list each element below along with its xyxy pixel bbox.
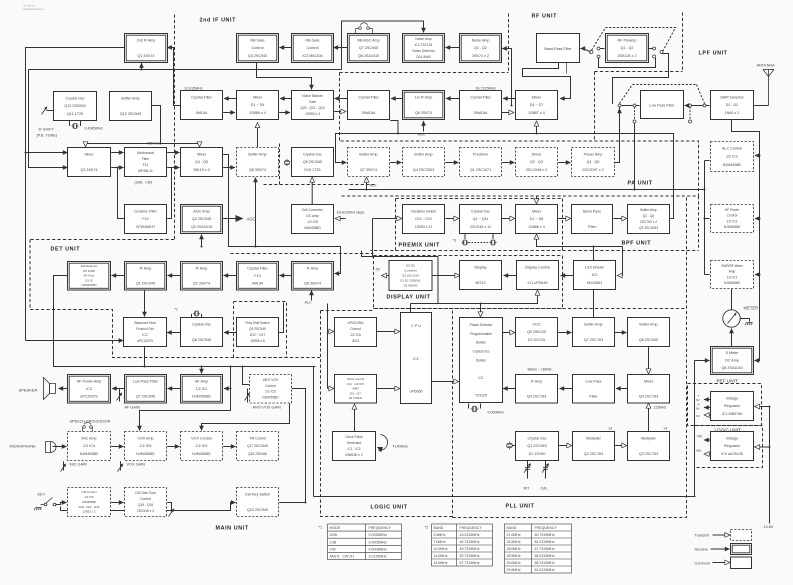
freq shift dashed enclosure <box>234 302 287 358</box>
svg-text:1/2 IC6: 1/2 IC6 <box>140 444 152 448</box>
display data column <box>362 251 439 304</box>
svg-text:IC3: IC3 <box>86 387 92 391</box>
svg-text:NJM4558D: NJM4558D <box>192 395 211 399</box>
svg-text:NB Gate: NB Gate <box>250 38 264 42</box>
svg-text:Phase Detector: Phase Detector <box>470 323 494 327</box>
svg-text:AGC Amp: AGC Amp <box>193 209 209 213</box>
svg-text:46.7315MHz: 46.7315MHz <box>460 540 480 544</box>
NB AGC amp <box>348 34 390 63</box>
svg-text:10Hz/100Hz steps: 10Hz/100Hz steps <box>337 211 365 215</box>
anti vox to vox control <box>202 403 290 430</box>
premix crystal stub1 <box>464 234 466 240</box>
svg-text:Q1 3SK74: Q1 3SK74 <box>137 54 154 58</box>
cpu top stub <box>410 304 412 313</box>
svg-text:Noise Amp: Noise Amp <box>472 38 490 42</box>
svg-text:Freq Shift Switch: Freq Shift Switch <box>245 321 269 325</box>
svg-text:2SC1945 x 2: 2SC1945 x 2 <box>526 168 547 172</box>
MAIN/LOGIC divider <box>321 311 453 517</box>
display control to display <box>504 275 517 277</box>
svg-text:Crystal Filter: Crystal Filter <box>191 95 212 99</box>
divider to display control <box>561 275 574 277</box>
AM detector <box>68 262 111 291</box>
svg-text:Q12 2SC945: Q12 2SC945 <box>120 112 141 116</box>
ALC control <box>711 142 754 172</box>
RF feed second vert <box>566 63 568 74</box>
reg feed 2 <box>755 446 770 448</box>
clock control <box>335 375 377 404</box>
svg-text:Oscillator Switch: Oscillator Switch <box>411 209 436 213</box>
svg-text:LPF UNIT: LPF UNIT <box>699 51 728 57</box>
IF SHIFT pot <box>42 107 47 114</box>
svg-text:Clock Control: Clock Control <box>347 377 365 381</box>
wire NB AGC loop <box>342 21 424 70</box>
noise blanker gate <box>292 91 334 120</box>
TX return blanker to filter39 <box>334 111 345 113</box>
svg-text:DN8150 x 2: DN8150 x 2 <box>345 453 363 457</box>
IF chain arrow blanker to mixer <box>280 98 292 100</box>
svg-text:CW Control: CW Control <box>82 490 97 494</box>
svg-text:Q4 2SC763: Q4 2SC763 <box>527 395 546 399</box>
svg-text:ANTENNA: ANTENNA <box>757 64 776 68</box>
TX filter39 from PA line <box>390 121 398 134</box>
svg-text:Q1 2SC1214: Q1 2SC1214 <box>402 274 419 278</box>
ref arrow T <box>704 399 712 401</box>
pll buffer amp Q8 <box>628 318 670 347</box>
premix osc sw to crystal osc <box>445 218 458 220</box>
svg-text:Q3 2SC3053: Q3 2SC3053 <box>639 226 658 230</box>
tuning knob symbol <box>379 435 388 451</box>
svg-text:DC-DC: DC-DC <box>406 263 415 267</box>
svg-text:ALC: ALC <box>305 301 312 305</box>
IF amp Q1 3SK74 <box>181 262 223 291</box>
balanced mod bottom drop <box>144 347 146 367</box>
phase det crystal stub right <box>480 404 482 409</box>
speaker symbol <box>44 378 56 400</box>
svg-text:MF455-11: MF455-11 <box>138 169 153 173</box>
pll IF amp <box>516 375 558 404</box>
svg-text:18.0MHz: 18.0MHz <box>434 561 448 565</box>
CPU <box>401 313 432 404</box>
2nd IF unit lower-left descender <box>279 144 281 185</box>
mixer Q3 to mech filter lower <box>111 167 123 169</box>
ALC to buffer Q7 <box>366 178 368 190</box>
SWR detector <box>711 91 754 120</box>
s meter feed drop <box>694 361 696 497</box>
speech processor jumper <box>83 422 93 431</box>
band table right <box>505 524 572 573</box>
svg-text:Display Control: Display Control <box>525 265 550 269</box>
svg-text:24.5MHz: 24.5MHz <box>507 540 521 544</box>
clock pulse gen to cpu <box>354 405 356 432</box>
svg-text:IC4 . 1/2 IC5: IC4 . 1/2 IC5 <box>347 382 364 386</box>
svg-text:Band-Pass Filter: Band-Pass Filter <box>544 47 572 51</box>
PREMIX unit bottom <box>396 250 563 252</box>
logic reg arrow top <box>704 439 712 441</box>
updown input <box>328 331 334 333</box>
svg-text:2SK125 x 2: 2SK125 x 2 <box>617 54 636 58</box>
mechanical filter <box>125 148 167 177</box>
svg-text:Predriver: Predriver <box>473 152 489 156</box>
svg-text:6V: 6V <box>696 398 700 402</box>
svg-text:DET UNIT: DET UNIT <box>51 247 81 253</box>
det chain F13 to IF amp <box>224 275 237 277</box>
svg-text:Q11 1T25: Q11 1T25 <box>67 112 83 116</box>
preamp out link <box>649 48 653 50</box>
svg-text:CW Key Switch: CW Key Switch <box>245 492 270 496</box>
svg-text:PLL UNIT: PLL UNIT <box>506 504 535 510</box>
svg-text:IF Amp: IF Amp <box>140 266 152 270</box>
svg-text:UP/DOWN: UP/DOWN <box>348 321 365 325</box>
svg-text:VOX GAIN: VOX GAIN <box>127 463 146 467</box>
low pass filter LPF unit <box>641 91 684 119</box>
svg-text:68.7315MHz: 68.7315MHz <box>535 561 555 565</box>
svg-text:Buffer Amp: Buffer Amp <box>359 152 377 156</box>
tx dashed diag left <box>620 85 633 104</box>
svg-text:D/A Converter: D/A Converter <box>302 208 324 212</box>
svg-text:PREMIX UNIT: PREMIX UNIT <box>399 243 440 249</box>
wire bus to balanced mod <box>26 340 124 342</box>
svg-text:IF Amp: IF Amp <box>307 266 319 270</box>
svg-text:Product Det: Product Det <box>136 327 153 331</box>
svg-text:Filter: Filter <box>588 225 597 229</box>
det chain IF to IF <box>168 275 181 277</box>
svg-text:DISPLAY UNIT: DISPLAY UNIT <box>387 295 431 301</box>
display control <box>517 261 559 290</box>
alc stub2 <box>705 218 710 220</box>
svg-text:BPF UNIT: BPF UNIT <box>622 241 652 247</box>
svg-text:9.4985MHz: 9.4985MHz <box>85 127 104 131</box>
svg-text:Q4 . Q5: Q4 . Q5 <box>587 160 600 164</box>
svg-text:MAIN UNIT: MAIN UNIT <box>216 526 249 532</box>
wire AGC line y69 <box>29 69 342 71</box>
svg-text:D5 1N60: D5 1N60 <box>83 269 95 273</box>
osc switch input arrow <box>373 218 402 220</box>
reg feed 1 <box>755 406 770 408</box>
svg-text:D14 IN60: D14 IN60 <box>416 55 430 59</box>
svg-text:Filter: Filter <box>589 395 598 399</box>
svg-text:69.2315MHz: 69.2315MHz <box>535 568 555 572</box>
svg-text:F13: F13 <box>254 274 260 278</box>
svg-text:IC1 MB3756: IC1 MB3756 <box>722 412 743 416</box>
svg-text:Mixer: Mixer <box>197 152 207 156</box>
svg-text:Low Pass Filter: Low Pass Filter <box>133 379 159 383</box>
buffer to buffer pll <box>614 332 626 334</box>
AM det audio out <box>54 276 316 367</box>
premix crystal osc to mixer <box>502 218 515 220</box>
svg-text:uPD650: uPD650 <box>410 390 423 394</box>
svg-text:NB AGC Amp: NB AGC Amp <box>357 38 379 42</box>
DC-DC converter <box>389 261 432 291</box>
svg-text:IC2 M51204: IC2 M51204 <box>302 54 322 58</box>
svg-text:Divider: Divider <box>476 341 487 345</box>
svg-text:1/2 IC5: 1/2 IC5 <box>350 333 361 337</box>
swr to lpf wire <box>706 105 710 107</box>
phase detector <box>460 318 503 403</box>
anti vox control <box>250 375 292 404</box>
svg-text:Multiplier: Multiplier <box>586 436 602 440</box>
ALC bus <box>349 189 705 191</box>
svg-text:NJM4558D: NJM4558D <box>262 396 279 400</box>
LOGIC top boundary <box>321 310 374 312</box>
RIT line <box>527 461 529 479</box>
svg-text:NJM4558D: NJM4558D <box>192 452 211 456</box>
legend transmit box <box>731 530 752 541</box>
s meter to meter <box>731 329 733 347</box>
svg-text:D19 1T25: D19 1T25 <box>304 168 320 172</box>
svg-text:96kHz ~ 16MHz: 96kHz ~ 16MHz <box>528 368 553 372</box>
svg-text:FREQUENCY: FREQUENCY <box>460 526 483 530</box>
svg-text:1S887 x 4: 1S887 x 4 <box>528 111 545 115</box>
clock control to cpu <box>377 388 400 390</box>
svg-text:Mechanical: Mechanical <box>137 151 154 155</box>
svg-text:Noise Blanker: Noise Blanker <box>302 94 323 98</box>
svg-text:CW Side Tone: CW Side Tone <box>135 491 156 495</box>
anti vox out column <box>292 389 306 503</box>
svg-text:7.0MHz: 7.0MHz <box>434 540 446 544</box>
svg-text:21.0MHz: 21.0MHz <box>507 533 521 537</box>
svg-text:x3: x3 <box>609 427 613 431</box>
noise amp chain arrow <box>446 47 460 49</box>
svg-text:1S953 x 3: 1S953 x 3 <box>82 510 95 514</box>
svg-text:SWR Detector: SWR Detector <box>720 95 744 99</box>
svg-text:LSB: LSB <box>330 540 337 544</box>
crystal D1 1SV50 <box>507 442 512 450</box>
svg-text:1st IF Amp: 1st IF Amp <box>415 95 433 99</box>
svg-text:Q2 2SC763: Q2 2SC763 <box>584 452 603 456</box>
crystal osc Q9 <box>292 148 334 177</box>
svg-text:NJM4558D: NJM4558D <box>304 226 321 230</box>
svg-text:(SSB . CW): (SSB . CW) <box>135 181 153 185</box>
logic voltage regulator <box>711 432 754 461</box>
cpu to phase detector <box>432 381 459 383</box>
svg-text:Buffer Amp: Buffer Amp <box>639 322 657 326</box>
DET/MAIN divider <box>231 253 374 255</box>
svg-text:MICROPHONE: MICROPHONE <box>10 445 37 449</box>
antenna symbol <box>763 70 774 106</box>
AGC arrow symbol <box>236 215 244 222</box>
svg-text:D2 SVC20: D2 SVC20 <box>528 338 545 342</box>
svg-text:F11: F11 <box>143 163 149 167</box>
svg-text:NB Gate: NB Gate <box>305 38 319 42</box>
clock pulse generator <box>333 432 376 461</box>
if shift link <box>47 110 54 112</box>
ceramic filter <box>125 205 167 234</box>
svg-text:Q20 . Q21 . Q24: Q20 . Q21 . Q24 <box>300 106 324 110</box>
mic amp to vox amp <box>111 446 123 448</box>
crystal 9.000MHz <box>471 406 479 411</box>
IF chain arrow filter39 to 1st IF <box>446 98 460 100</box>
multiplier Q3 <box>628 432 670 461</box>
svg-text:3SK74 x 2: 3SK74 x 2 <box>472 54 489 58</box>
pll top long wire <box>314 496 696 498</box>
det low pass filter <box>125 375 167 404</box>
lpf relay left dash <box>634 107 636 120</box>
svg-text:Q18 2SD468: Q18 2SD468 <box>248 452 267 456</box>
svg-text:2SC945 x 11: 2SC945 x 11 <box>470 225 491 229</box>
svg-text:NJM4558D: NJM4558D <box>723 163 742 167</box>
svg-text:D1 ~ D8: D1 ~ D8 <box>530 217 544 221</box>
svg-text:AM Detector: AM Detector <box>81 264 98 268</box>
svg-text:Crystal Osc: Crystal Osc <box>65 96 84 100</box>
premix crystal link <box>469 242 490 244</box>
PREMIX unit boundary <box>371 199 396 251</box>
svg-text:1/2 IC2: 1/2 IC2 <box>726 155 738 159</box>
2nd IF amp <box>125 34 168 63</box>
svg-text:68.2315MHz: 68.2315MHz <box>535 554 555 558</box>
IF chain arrow mixer D4 to filter39 <box>503 98 516 100</box>
svg-text:96T12: 96T12 <box>475 281 485 285</box>
svg-text:1S888 x 4: 1S888 x 4 <box>528 225 545 229</box>
CAL varicap <box>542 464 548 474</box>
common legend arrow <box>713 562 730 564</box>
band table left <box>432 524 493 566</box>
svg-text:IC2: IC2 <box>592 273 598 277</box>
PLL unit bottom boundary <box>453 517 687 519</box>
tx dashed horiz <box>633 84 697 86</box>
svg-text:Q9 2SC945: Q9 2SC945 <box>249 327 266 331</box>
svg-text:Regulator: Regulator <box>724 404 741 408</box>
pll low pass <box>573 375 615 404</box>
vox amp to vox control <box>167 446 179 448</box>
svg-text:Q10 2SC945: Q10 2SC945 <box>247 508 268 512</box>
svg-text:Mixer: Mixer <box>84 152 94 156</box>
IF chain arrow 1st IF to filter <box>391 98 403 100</box>
svg-text:Q15 . Q16: Q15 . Q16 <box>138 503 153 507</box>
TR control <box>237 432 279 461</box>
vox amp <box>125 432 167 461</box>
svg-text:Mixer: Mixer <box>532 95 542 99</box>
lpf relay to lpf <box>636 105 640 107</box>
key ground <box>34 508 42 511</box>
svg-text:Filter: Filter <box>142 157 150 161</box>
svg-text:Receive: Receive <box>695 548 709 552</box>
svg-text:D1 ~ D4: D1 ~ D4 <box>251 103 265 107</box>
AF amp top feed <box>201 367 203 374</box>
AF amp to LPF <box>168 388 181 390</box>
svg-text:Crystal Osc: Crystal Osc <box>472 350 489 354</box>
multiplier to multiplier <box>615 445 626 447</box>
IF amp to balanced mod <box>144 290 146 316</box>
svg-text:43.2315MHz: 43.2315MHz <box>460 533 480 537</box>
svg-text:Q2 2SC945: Q2 2SC945 <box>192 217 211 221</box>
premix crystal 1 <box>461 240 468 245</box>
svg-text:29.5MHz: 29.5MHz <box>507 568 521 572</box>
HF power control <box>711 205 754 233</box>
svg-text:VOX Control: VOX Control <box>191 436 212 440</box>
crystal D19 <box>285 159 290 166</box>
svg-text:AF GAIN: AF GAIN <box>125 406 140 410</box>
tx dashed diag right <box>697 85 705 104</box>
divider feed <box>618 247 623 276</box>
svg-text:1/2 IC1: 1/2 IC1 <box>196 387 208 391</box>
svg-text:Q13 2SD945: Q13 2SD945 <box>64 104 85 108</box>
svg-text:IC1 TA7124: IC1 TA7124 <box>415 43 433 47</box>
q13 crystal stub left <box>69 120 71 127</box>
LPF to AF power amp <box>112 388 125 390</box>
multiplier to mixer pll <box>648 404 650 432</box>
svg-text:1/10 Divider: 1/10 Divider <box>585 265 605 269</box>
alc control column <box>704 161 706 275</box>
crystal osc Q13 <box>54 92 97 121</box>
RF unit bottom boundary <box>595 71 683 73</box>
svg-text:Q1 . Q2: Q1 . Q2 <box>474 46 487 50</box>
rx from relay <box>613 54 669 105</box>
receive legend arrow <box>711 548 730 550</box>
svg-text:Common: Common <box>695 562 710 566</box>
audio bus drop <box>140 367 231 431</box>
AF GAIN pot <box>117 393 122 400</box>
svg-text:9.0115MHz: 9.0115MHz <box>369 555 387 559</box>
svg-text:Q1 2SC945: Q1 2SC945 <box>527 444 546 448</box>
NB AGC jumper <box>356 23 373 34</box>
svg-text:Amp: Amp <box>729 270 736 274</box>
phase det crystal stub left <box>468 404 470 409</box>
mixer Q4 Q5 <box>181 148 223 177</box>
DA converter to crystal osc Q9 <box>311 178 313 205</box>
svg-text:Q8 2SC945: Q8 2SC945 <box>639 338 658 342</box>
svg-text:Q5 2SK125: Q5 2SK125 <box>527 330 546 334</box>
wire second IF input lower <box>29 70 68 168</box>
svg-text:Low Pass: Low Pass <box>586 379 602 383</box>
svg-text:IF Amp: IF Amp <box>196 266 208 270</box>
phase det to VCO <box>502 332 514 334</box>
svg-text:Programmable: Programmable <box>470 332 492 336</box>
cw sidetone var <box>167 503 171 513</box>
svg-text:39.7315MHz: 39.7315MHz <box>476 87 497 91</box>
ceramic filter feed left <box>118 168 125 219</box>
power amp <box>572 148 615 177</box>
svg-text:D12 ~ D23: D12 ~ D23 <box>415 217 431 221</box>
svg-text:AF Power Amp: AF Power Amp <box>77 379 102 383</box>
IF amp Q6 ALC stub <box>311 291 313 301</box>
buffer Q8 to mixer pll <box>648 347 650 374</box>
meter ground <box>745 323 753 326</box>
ref arrow 6v <box>705 414 712 416</box>
noise amp Q1 Q2 <box>460 34 502 63</box>
VCO to buffer <box>558 332 571 334</box>
PA chain predriver to driver <box>502 162 515 164</box>
vox control to tr control <box>223 446 235 448</box>
svg-text:RadioAmateur.eu: RadioAmateur.eu <box>24 7 45 11</box>
crystal filter 39M15A right <box>460 91 502 120</box>
svg-text:Balanced Mod: Balanced Mod <box>134 321 155 325</box>
audio bus to AF amp <box>224 388 231 390</box>
svg-text:Ceramic Filter: Ceramic Filter <box>134 209 158 213</box>
premix mixer to bandpass <box>558 218 570 220</box>
svg-text:Q1 2SC945: Q1 2SC945 <box>136 282 155 286</box>
AF amp <box>181 375 223 404</box>
svg-text:Q7 2SC945: Q7 2SC945 <box>359 46 378 50</box>
mic gain stub <box>63 461 65 470</box>
meter ground link <box>740 319 749 322</box>
dcdc input <box>382 275 389 277</box>
CAL line <box>545 461 547 479</box>
svg-text:AF Amp: AF Amp <box>84 274 95 278</box>
2nd IF unit right descender <box>339 73 341 141</box>
crystal osc to multiplier <box>559 445 571 447</box>
PA chain driver to poweramp <box>558 162 570 164</box>
DA converter input <box>336 218 346 220</box>
DISPLAY unit boundary <box>374 256 563 309</box>
key to cw control <box>56 503 67 505</box>
svg-text:4013: 4013 <box>352 339 360 343</box>
svg-text:IF SHIFT: IF SHIFT <box>39 128 55 132</box>
CW side tone <box>125 488 167 517</box>
lpf relay right link <box>692 105 704 107</box>
svg-text:CW: CW <box>330 547 337 551</box>
svg-text:Buffer Amp: Buffer Amp <box>414 152 432 156</box>
cw key switch out <box>279 502 305 504</box>
